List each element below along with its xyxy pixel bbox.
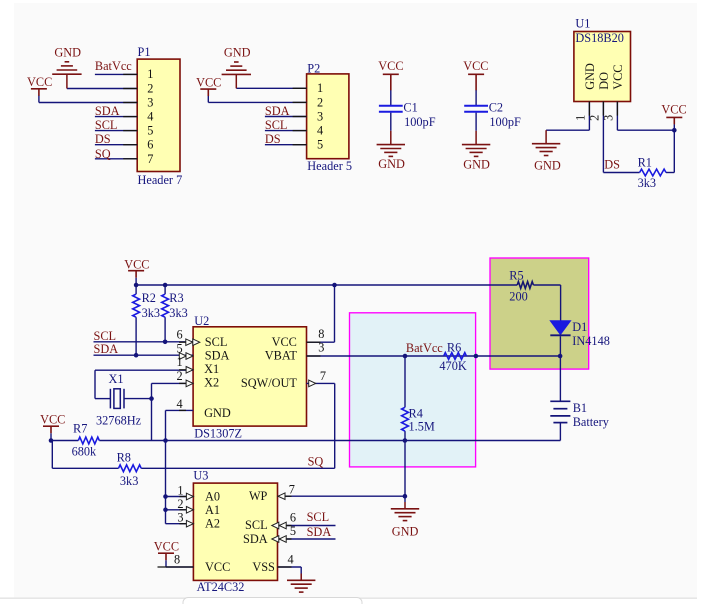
svg-text:5: 5 [147,124,153,138]
svg-text:3k3: 3k3 [120,474,138,488]
svg-text:C1: C1 [403,100,417,114]
svg-text:VCC: VCC [661,103,686,117]
svg-text:VCC: VCC [40,413,65,427]
svg-text:VBAT: VBAT [265,349,298,363]
svg-text:7: 7 [147,152,153,166]
svg-text:8: 8 [318,327,324,341]
svg-text:DS: DS [265,132,281,146]
svg-text:SDA: SDA [243,532,268,546]
svg-text:R4: R4 [409,407,423,421]
svg-text:U1: U1 [575,17,590,31]
svg-text:3k3: 3k3 [638,176,656,190]
svg-text:1: 1 [147,67,153,81]
svg-text:470K: 470K [439,359,466,373]
svg-text:3: 3 [177,511,183,525]
svg-text:GND: GND [583,63,597,90]
svg-text:3k3: 3k3 [169,306,187,320]
svg-text:VCC: VCC [27,75,52,89]
svg-text:32768Hz: 32768Hz [96,414,142,428]
svg-text:3: 3 [602,115,616,121]
svg-text:A1: A1 [205,503,220,517]
svg-text:SDA: SDA [265,104,290,118]
svg-text:1.5M: 1.5M [409,420,435,434]
svg-text:2: 2 [177,369,183,383]
svg-text:X1: X1 [109,372,124,386]
svg-text:VCC: VCC [154,540,179,554]
svg-text:Header 7: Header 7 [138,173,183,187]
svg-text:X1: X1 [204,362,219,376]
svg-text:GND: GND [463,157,490,171]
svg-text:6: 6 [147,138,153,152]
svg-text:SDA: SDA [307,525,332,539]
svg-text:R1: R1 [638,156,652,170]
svg-text:R8: R8 [117,451,131,465]
svg-text:SCL: SCL [307,510,330,524]
svg-text:SCL: SCL [205,335,228,349]
svg-text:R3: R3 [169,291,183,305]
svg-text:P2: P2 [307,61,320,75]
svg-text:SDA: SDA [94,342,119,356]
svg-text:1: 1 [177,483,183,497]
svg-text:GND: GND [378,157,405,171]
svg-text:2: 2 [317,95,323,109]
svg-text:U2: U2 [194,314,209,328]
svg-text:R2: R2 [142,291,156,305]
svg-text:GND: GND [392,525,419,539]
svg-text:X2: X2 [204,375,219,389]
svg-text:2: 2 [588,115,602,121]
svg-text:VCC: VCC [378,59,403,73]
svg-text:D1: D1 [572,320,587,334]
svg-text:DS: DS [604,158,620,172]
svg-text:Battery: Battery [573,415,610,429]
svg-text:A2: A2 [205,517,220,531]
svg-text:3: 3 [147,95,153,109]
svg-text:100pF: 100pF [489,115,521,129]
svg-text:A0: A0 [205,489,220,503]
svg-text:DS: DS [95,132,111,146]
svg-text:SQ: SQ [95,147,111,161]
svg-text:200: 200 [509,290,527,304]
svg-text:Header 5: Header 5 [307,159,352,173]
svg-text:SCL: SCL [95,118,118,132]
svg-text:2: 2 [177,497,183,511]
svg-text:IN4148: IN4148 [572,334,610,348]
svg-text:GND: GND [224,45,251,59]
svg-text:U3: U3 [193,468,208,482]
svg-text:R7: R7 [73,422,87,436]
svg-text:SQ: SQ [308,455,324,469]
svg-text:R5: R5 [509,269,523,283]
svg-text:DS1307Z: DS1307Z [194,427,242,441]
svg-text:SDA: SDA [205,349,230,363]
svg-text:GND: GND [534,159,561,173]
svg-text:5: 5 [177,342,183,356]
svg-text:BatVcc: BatVcc [95,59,132,73]
svg-text:GND: GND [204,406,231,420]
svg-text:VCC: VCC [205,560,230,574]
svg-text:DS18B20: DS18B20 [575,31,624,45]
svg-text:680k: 680k [72,445,97,459]
svg-text:1: 1 [317,81,323,95]
svg-text:SQW/OUT: SQW/OUT [241,376,298,390]
svg-text:6: 6 [177,328,183,342]
svg-text:3: 3 [318,340,324,354]
svg-text:VCC: VCC [611,65,625,90]
svg-text:1: 1 [574,115,588,121]
svg-text:5: 5 [317,138,323,152]
svg-text:7: 7 [320,369,326,383]
svg-text:C2: C2 [489,100,503,114]
svg-text:DO: DO [597,72,611,90]
svg-text:R6: R6 [447,341,461,355]
svg-text:VCC: VCC [463,59,488,73]
svg-text:3k3: 3k3 [142,306,160,320]
svg-text:SCL: SCL [94,329,117,343]
svg-text:4: 4 [147,110,153,124]
svg-text:5: 5 [290,524,296,538]
svg-text:SCL: SCL [265,118,288,132]
svg-text:6: 6 [290,510,296,524]
svg-text:1: 1 [177,355,183,369]
svg-text:VCC: VCC [272,335,297,349]
svg-text:2: 2 [147,81,153,95]
svg-text:SDA: SDA [95,104,120,118]
svg-text:3: 3 [317,109,323,123]
svg-text:VSS: VSS [252,560,275,574]
svg-text:7: 7 [289,483,295,497]
svg-text:WP: WP [249,489,268,503]
svg-text:AT24C32: AT24C32 [197,580,245,594]
svg-text:GND: GND [54,46,81,60]
svg-text:4: 4 [177,397,183,411]
svg-text:100pF: 100pF [404,115,436,129]
svg-text:P1: P1 [138,45,151,59]
svg-text:SCL: SCL [245,518,268,532]
svg-text:4: 4 [288,553,294,567]
svg-text:VCC: VCC [124,258,149,272]
svg-text:VCC: VCC [196,75,221,89]
svg-text:8: 8 [174,553,180,567]
svg-text:BatVcc: BatVcc [406,341,443,355]
svg-text:B1: B1 [573,401,587,415]
svg-text:4: 4 [317,124,323,138]
